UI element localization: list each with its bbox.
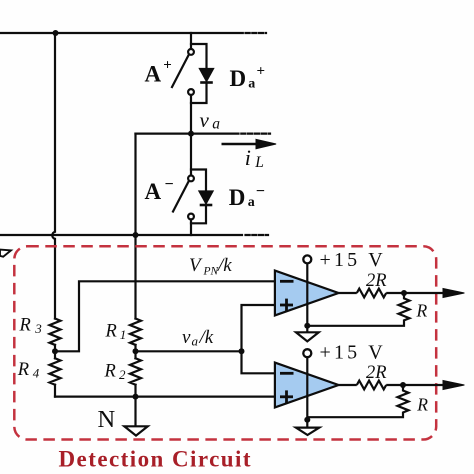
svg-text:L: L	[254, 154, 264, 171]
svg-text:1: 1	[120, 327, 127, 342]
svg-text:−: −	[165, 176, 174, 193]
svg-text:+15 V: +15 V	[320, 249, 386, 271]
svg-text:−: −	[256, 183, 265, 200]
svg-text:v: v	[182, 327, 191, 348]
svg-text:R: R	[19, 315, 31, 335]
svg-text:/k: /k	[199, 327, 214, 348]
svg-text:v: v	[200, 108, 210, 132]
svg-text:+: +	[163, 58, 172, 74]
svg-text:i: i	[245, 145, 251, 170]
svg-text:N: N	[98, 406, 116, 433]
svg-text:D: D	[230, 66, 247, 91]
svg-text:A: A	[145, 62, 162, 87]
svg-text:R: R	[105, 321, 117, 341]
svg-text:+: +	[257, 64, 266, 80]
svg-text:a: a	[212, 116, 220, 133]
svg-text:3: 3	[34, 321, 42, 336]
svg-text:/k: /k	[217, 255, 232, 276]
svg-text:2: 2	[119, 367, 126, 382]
svg-text:a: a	[192, 333, 199, 348]
svg-text:R: R	[416, 301, 428, 321]
svg-text:PN: PN	[203, 266, 220, 278]
svg-text:D: D	[229, 185, 246, 210]
svg-text:R: R	[416, 395, 428, 415]
svg-text:2R: 2R	[366, 271, 387, 291]
svg-text:a: a	[248, 76, 255, 91]
svg-text:R: R	[104, 362, 116, 382]
svg-text:A: A	[145, 179, 162, 204]
svg-text:+15 V: +15 V	[320, 342, 386, 364]
svg-text:Detection Circuit: Detection Circuit	[59, 446, 252, 471]
svg-text:4: 4	[33, 365, 40, 380]
svg-text:a: a	[248, 195, 255, 210]
svg-text:R: R	[17, 360, 29, 380]
svg-text:2R: 2R	[366, 363, 387, 383]
